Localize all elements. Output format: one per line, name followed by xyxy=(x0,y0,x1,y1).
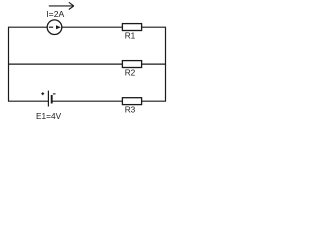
wire top left segment xyxy=(8,26,47,28)
wire left vertical xyxy=(8,27,10,101)
wire top right segment xyxy=(142,26,166,28)
resistor R3 xyxy=(122,98,141,105)
svg-text:E1=4V: E1=4V xyxy=(36,111,62,121)
resistor R2 xyxy=(122,61,141,68)
battery long plate (+) xyxy=(47,91,49,107)
wire top middle segment xyxy=(62,26,123,28)
battery E1 xyxy=(41,91,55,107)
battery short plate (-) xyxy=(51,95,53,104)
wire bottom middle segment xyxy=(52,100,122,102)
resistor R1 xyxy=(122,24,141,31)
battery plus mark xyxy=(41,92,44,95)
wire middle right segment xyxy=(142,63,166,65)
wire right vertical xyxy=(165,27,167,101)
svg-text:R3: R3 xyxy=(125,104,136,114)
current direction arrow xyxy=(49,2,74,9)
wire bottom left segment xyxy=(8,100,48,102)
current source I1 xyxy=(47,20,62,35)
wire bottom right segment xyxy=(142,100,166,102)
wire middle left segment xyxy=(8,63,122,65)
battery minus mark xyxy=(53,93,56,95)
svg-text:I=2A: I=2A xyxy=(46,9,64,19)
svg-text:R1: R1 xyxy=(125,30,136,40)
svg-text:R2: R2 xyxy=(125,67,136,77)
